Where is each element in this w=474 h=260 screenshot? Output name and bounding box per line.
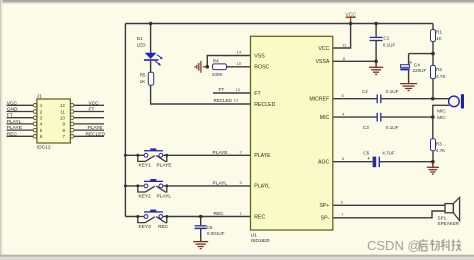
svg-text:PLAYE: PLAYE [254,153,271,159]
svg-text:VSS: VSS [254,53,265,59]
svg-text:C4: C4 [414,62,420,67]
key switch KEY3 (REC) [136,210,168,230]
junction LED top [149,22,153,26]
svg-text:PLAYE: PLAYE [157,163,172,169]
svg-text:VCC: VCC [89,100,100,106]
svg-text:PLAYE: PLAYE [213,150,228,156]
svg-text:1: 1 [40,103,43,108]
svg-text:0.1UF: 0.1UF [383,42,396,47]
resistor R4 [212,59,227,78]
svg-text:0.1UF: 0.1UF [386,89,399,94]
wire LED anode [150,24,152,54]
svg-text:REC: REC [214,211,225,217]
wire R2 leads [432,54,434,99]
junction at C1/VSSA [374,60,378,64]
capacitor C5 (electrolytic) [363,151,395,168]
wire MIC pin 4 [333,116,433,118]
J1 left net labels [7,100,22,137]
key switch KEY1 (PLAYE) [136,148,171,168]
svg-text:ISD1820: ISD1820 [251,238,270,244]
svg-text:SP-: SP- [321,216,330,222]
svg-text:PLAYL: PLAYL [157,193,172,199]
svg-text:KEY3: KEY3 [139,224,152,230]
U1 pin names [254,46,330,222]
wire left key rail [124,24,126,217]
svg-text:MIC: MIC [437,109,446,114]
svg-text:U1: U1 [251,233,257,239]
svg-text:ROSC: ROSC [254,64,269,70]
resistor R1 [431,30,443,42]
svg-text:SP1: SP1 [438,215,447,220]
svg-text:C1: C1 [383,35,389,40]
svg-text:10: 10 [237,61,242,66]
J1 pin circles [33,104,74,139]
wire ground stem at R3 [432,162,434,167]
svg-text:4.7K: 4.7K [436,148,446,153]
J1 right pin wires [74,105,104,136]
wire ground stem at C1 [375,61,377,67]
capacitor C2 [362,89,399,103]
svg-text:REC: REC [158,224,169,230]
svg-text:5: 5 [40,128,43,133]
svg-text:10: 10 [60,116,66,121]
wire VCC pin 11 [333,24,351,49]
svg-text:0.1UF: 0.1UF [386,125,399,130]
speaker SP1 [438,197,460,225]
svg-text:VCC: VCC [7,100,18,106]
svg-text:+: + [409,60,412,66]
wire LED cathode to R5 [150,61,152,73]
svg-text:CSDN @: CSDN @ [367,238,421,253]
svg-text:R2: R2 [436,67,442,72]
key switch KEY2 (PLAYL) [136,179,171,199]
svg-text:R3: R3 [436,141,442,146]
junction at R1/R2/C4 [431,52,435,56]
svg-text:IDC12: IDC12 [37,145,51,151]
junction VCC stem [349,22,353,26]
wire C1 leads [375,24,377,62]
svg-text:0.001UF: 0.001UF [207,231,225,236]
svg-text:LED: LED [137,43,147,48]
capacitor C6 [195,225,225,236]
ground at C4 [400,84,417,91]
svg-text:PLAYL: PLAYL [213,180,228,186]
svg-text:C5: C5 [363,151,369,156]
LED D1 [137,36,163,65]
svg-text:220UF: 220UF [413,68,427,73]
wire AGC pin 6 with C5 [333,161,433,163]
svg-text:FT: FT [219,87,225,93]
wire VSS pin 14 [207,56,250,67]
svg-text:C2: C2 [362,89,368,94]
svg-text:GND: GND [7,107,18,113]
junction rail KEY2 [124,184,127,187]
svg-text:RECLED: RECLED [254,102,275,108]
svg-text:KEY2: KEY2 [139,193,152,199]
svg-text:9: 9 [62,122,65,127]
svg-text:PLAYL: PLAYL [254,184,270,190]
resistor R2 [431,65,447,79]
junction rail KEY1 [124,154,127,157]
svg-text:MICREF: MICREF [309,97,329,103]
wire mic return to R3 [433,105,449,139]
wire R5 to RECLED pin 13 [151,85,251,104]
svg-text:FT: FT [7,113,13,119]
svg-text:+: + [367,156,370,162]
wire SP- pin 7 [333,211,445,218]
wire KEY3 to REC pin 1 [125,216,250,218]
svg-text:C6: C6 [207,225,213,230]
ground (sideways) at R4 [195,61,207,73]
svg-text:J1: J1 [37,94,42,99]
svg-text:RECLED: RECLED [214,98,233,103]
ground at R3/C5 [427,167,439,174]
wire C6 stem [200,217,202,242]
svg-text:FT: FT [254,91,261,97]
svg-text:RECLED: RECLED [86,131,106,137]
wire VSSA pin 8 [333,60,376,62]
J1 right net labels [86,100,106,137]
svg-text:14: 14 [237,49,242,54]
svg-text:100K: 100K [212,72,224,77]
svg-text:11: 11 [60,109,65,114]
connector J1 body [37,99,71,143]
svg-text:3: 3 [40,116,43,121]
svg-text:7: 7 [62,134,65,139]
junction at R4 / VSS [206,65,210,69]
svg-text:PLAYL: PLAYL [7,119,22,125]
junction at C6 / REC [199,215,203,219]
svg-text:12: 12 [60,103,66,108]
svg-text:MIC: MIC [320,115,330,121]
capacitor C3 [363,113,399,130]
junction at MIC / C3 [431,115,435,119]
svg-text:MIC: MIC [437,115,446,120]
wire KEY1 to PLAYE pin 2 [125,154,250,156]
svg-text:R4: R4 [213,59,219,64]
wire R3 bottom [432,151,434,162]
svg-text:FT: FT [89,107,95,113]
wire MICREF pin 5 [333,98,449,100]
wire C4 branch [409,54,433,84]
svg-text:4: 4 [40,122,43,127]
svg-text:VSSA: VSSA [315,59,329,65]
svg-text:C3: C3 [363,125,369,130]
svg-text:R1: R1 [436,30,442,35]
svg-text:1K: 1K [140,79,147,84]
svg-text:SP+: SP+ [319,203,329,209]
resistor R5 [140,72,154,85]
svg-text:4.7UF: 4.7UF [382,151,395,156]
svg-text:VCC: VCC [345,12,356,18]
svg-text:8: 8 [62,128,65,133]
junction C1 top [374,22,378,26]
svg-text:4.7K: 4.7K [436,74,446,79]
svg-text:D1: D1 [137,36,143,41]
microphone MIC [437,94,464,120]
svg-text:2: 2 [40,109,43,114]
op-amp U1 ISD1820 body [251,36,333,230]
VCC power symbol [345,12,356,23]
svg-text:REC: REC [7,131,18,137]
J1 pin numbers [40,103,66,139]
svg-text:SPEAKER: SPEAKER [438,221,460,226]
wire R4 to ROSC pin 10 [227,66,251,68]
svg-text:PLAYE: PLAYE [7,125,22,131]
svg-text:13: 13 [234,98,239,103]
wire top VCC rail [125,23,433,25]
svg-text:REC: REC [254,214,265,220]
svg-text:R5: R5 [140,73,146,78]
ground at C6 [193,242,208,249]
U1 pin numbers [234,43,348,218]
resistor R3 [431,139,447,154]
watermark CJK glyphs [419,239,461,251]
capacitor C1 [370,35,396,47]
junction at AGC/R3 [431,160,435,164]
wire R1 leads [432,24,434,54]
svg-text:12: 12 [236,87,241,92]
svg-text:PLAYE: PLAYE [88,125,103,131]
svg-text:KEY1: KEY1 [139,163,152,169]
wire FT stub pin 12 [213,92,251,94]
capacitor C4 (electrolytic) [400,60,426,73]
svg-text:1K: 1K [436,36,443,41]
svg-text:AGC: AGC [318,160,329,166]
svg-text:VCC: VCC [318,46,329,52]
junction at MICREF / R2 [431,97,435,101]
wire KEY2 to PLAYL pin 3 [125,185,250,187]
svg-text:6: 6 [40,134,43,139]
wire SP+ pin 9 [333,204,445,206]
ground at C1/VSSA [369,67,383,74]
J1 left pin wires [7,105,34,136]
